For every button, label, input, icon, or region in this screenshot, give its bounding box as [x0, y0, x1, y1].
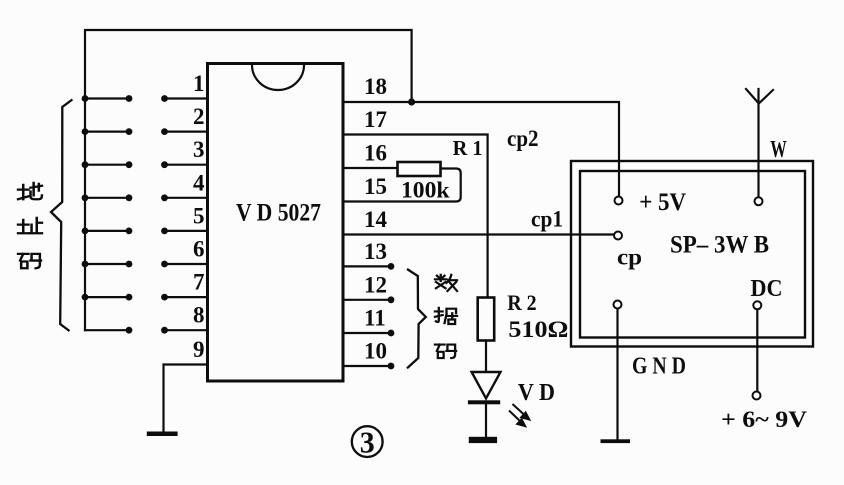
- svg-text:cp1: cp1: [531, 207, 563, 232]
- svg-text:DC: DC: [751, 276, 783, 302]
- svg-text:cp2: cp2: [507, 126, 539, 151]
- svg-text:10: 10: [364, 339, 387, 364]
- svg-text:4: 4: [193, 170, 205, 195]
- svg-text:13: 13: [364, 239, 387, 264]
- svg-text:cp: cp: [617, 245, 642, 270]
- svg-text:16: 16: [364, 141, 387, 166]
- svg-text:17: 17: [364, 107, 387, 132]
- svg-text:5: 5: [193, 203, 205, 228]
- svg-text:7: 7: [193, 270, 205, 295]
- svg-text:+ 5V: + 5V: [639, 189, 686, 216]
- svg-text:11: 11: [364, 306, 386, 331]
- svg-text:3: 3: [360, 425, 375, 460]
- svg-text:510Ω: 510Ω: [508, 317, 568, 342]
- svg-text:R 2: R 2: [507, 290, 537, 315]
- svg-text:G N D: G N D: [632, 354, 686, 380]
- svg-text:SP– 3W B: SP– 3W B: [670, 232, 769, 259]
- svg-text:8: 8: [193, 303, 205, 328]
- svg-text:15: 15: [364, 174, 387, 199]
- svg-text:6: 6: [193, 237, 205, 262]
- svg-text:18: 18: [364, 74, 387, 99]
- svg-text:2: 2: [193, 104, 205, 129]
- svg-text:3: 3: [193, 137, 205, 162]
- svg-text:12: 12: [364, 272, 387, 297]
- svg-text:+ 6~ 9V: + 6~ 9V: [721, 407, 807, 432]
- svg-text:V D 5027: V D 5027: [236, 198, 321, 227]
- svg-text:W: W: [770, 137, 787, 163]
- svg-text:R 1: R 1: [453, 136, 483, 160]
- svg-text:1: 1: [193, 71, 205, 96]
- svg-text:V D: V D: [518, 380, 555, 406]
- svg-text:9: 9: [193, 337, 205, 362]
- svg-text:100k: 100k: [401, 178, 450, 203]
- svg-text:14: 14: [364, 207, 388, 232]
